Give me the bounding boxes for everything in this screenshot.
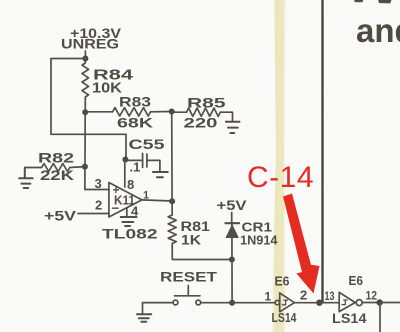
wire CR1 vertical [231, 213, 233, 303]
document text fragment top [354, 0, 391, 3]
junction dot R81/CR1 [229, 257, 235, 263]
junction dot output [169, 198, 175, 204]
wire node A vertical [84, 112, 86, 166]
resistor R83 [85, 108, 172, 116]
junction dot node A top [82, 109, 88, 115]
junction dot [82, 56, 88, 62]
wire node A to pin 3 [85, 167, 109, 190]
wire node D to inverter2 [319, 302, 339, 304]
resistor R85 [172, 108, 233, 122]
junction dot node E [376, 299, 382, 305]
wire feedback vertical [171, 112, 173, 202]
wire node C to inverter input [232, 302, 275, 304]
node +5V CR1 label [217, 198, 247, 213]
wire node E down [379, 303, 381, 332]
wire pin 2 with +5V [78, 213, 109, 215]
inverter U-E6b LS14 [349, 274, 364, 288]
op-amp U-K11 TL082 [109, 183, 142, 218]
wire switch left to ground [143, 303, 174, 315]
wire V+ L-run to C55 node [51, 59, 126, 159]
ground op-amp [121, 217, 137, 226]
junction dot node A R82 [82, 164, 88, 170]
highlighter streak [272, 0, 286, 332]
wire pin 8 [124, 160, 126, 187]
wire long vertical page line [321, 0, 323, 303]
wire op-amp output [142, 200, 172, 201]
wire inverter2 output [362, 302, 400, 304]
diode CR1 [226, 222, 240, 224]
inverter U-E6a LS14 [275, 275, 290, 289]
junction dot node C [229, 300, 235, 306]
resistor R84 [82, 59, 89, 113]
resistor R81 [168, 201, 232, 259]
wire supply tick [84, 51, 86, 59]
ground switch [137, 314, 151, 322]
wire pin 4 [126, 208, 128, 217]
wire switch right to node C [201, 302, 232, 304]
pushbutton RESET [160, 270, 218, 285]
capacitor C55 [125, 136, 164, 175]
callout arrow [283, 194, 320, 294]
node +10.3V UNREG label [61, 26, 121, 52]
wire inverter1 output [294, 302, 319, 304]
junction dot output node top [169, 109, 175, 115]
junction dot C55 node [122, 157, 128, 163]
junction dot node D [316, 300, 322, 306]
ground C55 [153, 172, 168, 177]
ground R85 [226, 122, 240, 133]
ground R82 [19, 168, 33, 189]
resistor R82 [25, 164, 85, 172]
